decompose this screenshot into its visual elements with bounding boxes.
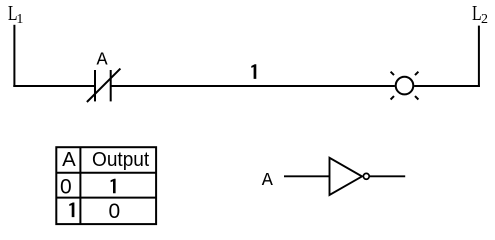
node label 1 (wire number) — [251, 64, 256, 79]
wire rung middle segment — [111, 85, 395, 87]
contact A (normally-closed) — [87, 69, 121, 102]
svg-text:1: 1 — [16, 12, 23, 27]
wire inverter output — [370, 175, 405, 177]
svg-text:0: 0 — [108, 200, 120, 223]
terminal L1 — [8, 2, 24, 27]
svg-text:2: 2 — [481, 12, 488, 27]
svg-text:0: 0 — [60, 175, 72, 198]
wire: left rail to contact — [13, 85, 95, 87]
svg-text:A: A — [262, 170, 274, 191]
wire: lamp to right rail — [414, 85, 480, 87]
right rail wire — [478, 26, 480, 87]
svg-text:A: A — [97, 50, 109, 71]
inverter U1 bubble — [363, 173, 369, 179]
svg-text:Output: Output — [92, 149, 150, 171]
lamp 1 — [391, 72, 419, 100]
left rail wire — [13, 25, 15, 87]
wire inverter input — [284, 175, 330, 177]
terminal L2 — [472, 2, 488, 27]
truth table — [56, 147, 156, 224]
svg-text:A: A — [62, 149, 76, 171]
inverter U1 triangle — [330, 158, 363, 195]
